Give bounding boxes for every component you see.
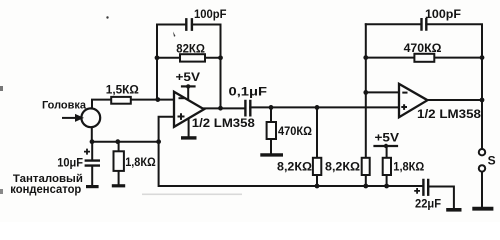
svg-text:470КΩ: 470КΩ [278, 126, 312, 138]
svg-text:+5V: +5V [176, 72, 201, 84]
svg-text:8,2КΩ: 8,2КΩ [277, 162, 312, 174]
svg-text:100pF: 100pF [425, 9, 461, 21]
svg-text:1,8КΩ: 1,8КΩ [393, 162, 424, 174]
svg-text:1,5КΩ: 1,5КΩ [106, 85, 139, 97]
svg-text:1/2 LM358: 1/2 LM358 [192, 118, 256, 130]
svg-text:1,8КΩ: 1,8КΩ [125, 157, 156, 169]
svg-text:82КΩ: 82КΩ [176, 43, 205, 55]
svg-text:1/2 LM358: 1/2 LM358 [417, 109, 482, 121]
svg-text:100pF: 100pF [194, 9, 227, 21]
svg-text:0,1μF: 0,1μF [229, 87, 268, 99]
svg-text:Головка: Головка [42, 100, 87, 112]
svg-text:конденсатор: конденсатор [10, 184, 81, 196]
svg-text:+5V: +5V [375, 133, 400, 145]
svg-text:22μF: 22μF [415, 199, 441, 211]
svg-text:470КΩ: 470КΩ [404, 43, 442, 55]
svg-text:S: S [488, 156, 496, 168]
svg-text:10μF: 10μF [57, 158, 83, 170]
svg-text:8,2КΩ: 8,2КΩ [325, 162, 360, 174]
